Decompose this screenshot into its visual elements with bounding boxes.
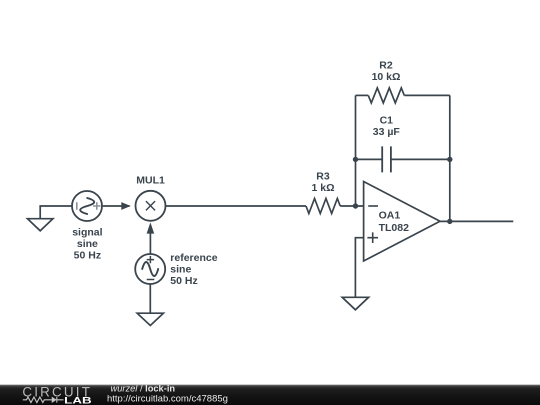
plus mark (gray) xyxy=(93,202,101,210)
minus mark xyxy=(147,279,155,281)
arrowhead into MUL1 (left input) xyxy=(121,202,131,210)
svg-text:10 kΩ: 10 kΩ xyxy=(372,71,401,83)
footer bar xyxy=(0,385,540,405)
wire output xyxy=(440,220,513,222)
wire feedback left vertical xyxy=(355,95,357,206)
arrowhead into MUL1 (bottom input) xyxy=(147,222,155,233)
plus mark xyxy=(147,256,154,263)
svg-text:TL082: TL082 xyxy=(379,222,410,234)
sine source V2 (reference) xyxy=(135,254,165,284)
capacitor C1 xyxy=(382,146,391,172)
sine source V1 (signal) xyxy=(72,191,102,221)
svg-text:R2: R2 xyxy=(379,60,393,72)
label: R3 1 kOhm xyxy=(311,170,334,194)
svg-text:sine: sine xyxy=(170,263,191,275)
svg-text:1 kΩ: 1 kΩ xyxy=(311,182,334,194)
wire C1 left xyxy=(356,158,383,160)
wire op-amp + input to ground xyxy=(355,238,363,298)
svg-text:LAB: LAB xyxy=(64,395,91,405)
wire MUL1 to R3 xyxy=(165,205,306,207)
wire reference source to MUL1 xyxy=(149,233,151,254)
op-amp OA1 xyxy=(364,182,440,262)
wire reference source to ground xyxy=(149,284,151,313)
node: output junction xyxy=(447,219,452,224)
svg-text:OA1: OA1 xyxy=(379,210,401,222)
inverting input mark xyxy=(368,205,378,207)
wire signal source to MUL1 xyxy=(103,205,130,207)
node: C1 right junction xyxy=(447,157,452,162)
label: OA1 TL082 xyxy=(379,210,410,234)
node: inverting input junction xyxy=(353,203,358,208)
ground (reference source) xyxy=(137,313,163,325)
resistor R2 xyxy=(368,88,404,103)
label: signal sine 50 Hz xyxy=(72,227,102,262)
svg-text:MUL1: MUL1 xyxy=(136,174,165,186)
svg-text:50 Hz: 50 Hz xyxy=(74,250,101,262)
ground (op-amp + input) xyxy=(342,297,368,310)
non-inverting input mark xyxy=(367,232,378,243)
node: C1 left junction xyxy=(353,157,358,162)
label: reference sine 50 Hz xyxy=(170,252,217,287)
wire signal source to ground xyxy=(40,206,72,219)
wire C1 right xyxy=(391,158,450,160)
svg-text:reference: reference xyxy=(170,252,217,264)
svg-text:signal: signal xyxy=(72,227,102,239)
label: C1 33 uF xyxy=(373,115,401,139)
resistor R3 xyxy=(306,199,340,214)
minus mark (gray) xyxy=(76,202,78,210)
multiplier MUL1 xyxy=(136,191,166,221)
wire R2 to right vertical xyxy=(404,94,450,96)
svg-text:C1: C1 xyxy=(380,115,394,127)
svg-text:http://circuitlab.com/c47885g: http://circuitlab.com/c47885g xyxy=(107,394,228,405)
wire R3 to inverting node xyxy=(340,205,363,207)
svg-text:sine: sine xyxy=(77,238,98,250)
svg-text:wurzel / lock-in: wurzel / lock-in xyxy=(111,384,176,394)
svg-text:33 µF: 33 µF xyxy=(373,126,401,138)
logo circuit glyph (wire, resistor, diode) xyxy=(23,397,64,403)
wire feedback right vertical xyxy=(449,95,451,221)
svg-text:50 Hz: 50 Hz xyxy=(170,275,197,287)
wire top (left) to R2 xyxy=(356,94,369,96)
ground (left, at signal source) xyxy=(28,219,53,231)
label: R2 10 kOhm xyxy=(372,60,401,84)
svg-text:R3: R3 xyxy=(316,170,330,182)
